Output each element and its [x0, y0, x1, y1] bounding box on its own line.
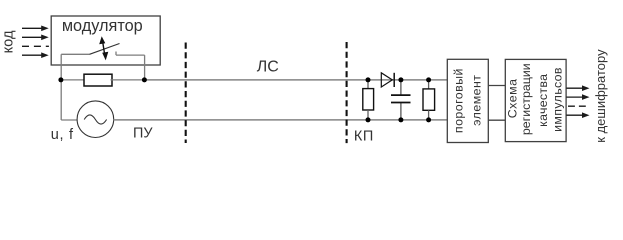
svg-text:Схема: Схема: [505, 78, 519, 118]
svg-text:код: код: [1, 30, 17, 53]
svg-text:импульсов: импульсов: [551, 67, 565, 132]
svg-text:ПУ: ПУ: [133, 125, 153, 141]
svg-text:элемент: элемент: [470, 75, 484, 126]
svg-text:КП: КП: [354, 129, 374, 145]
svg-text:u, f: u, f: [51, 127, 74, 143]
svg-text:к дешифратору: к дешифратору: [593, 49, 608, 143]
svg-text:пороговый: пороговый: [452, 68, 466, 133]
svg-text:регистрации: регистрации: [519, 63, 533, 135]
svg-text:ЛС: ЛС: [257, 58, 279, 75]
svg-text:модулятор: модулятор: [62, 17, 143, 35]
svg-text:качества: качества: [536, 74, 550, 127]
